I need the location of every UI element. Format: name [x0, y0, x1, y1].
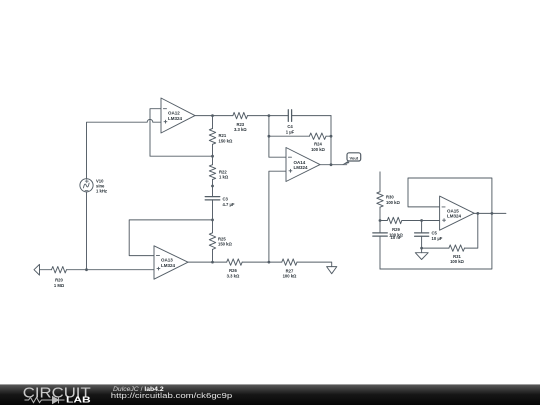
resistor R22 — [212, 156, 214, 165]
svg-text:100 kΩ: 100 kΩ — [450, 259, 464, 264]
logo LAB — [66, 396, 91, 405]
wire R23 to node — [248, 115, 269, 117]
resistor R24 — [269, 135, 310, 137]
svg-text:R29: R29 — [392, 227, 400, 232]
svg-text:C3: C3 — [223, 197, 229, 202]
svg-text:10 nF: 10 nF — [391, 235, 402, 240]
label R31 100 kΩ — [450, 254, 464, 264]
svg-text:1 MΩ: 1 MΩ — [54, 283, 65, 288]
wire R27 to ground — [297, 262, 332, 267]
op-amp OA15 — [440, 196, 475, 230]
junction R25/OA13 out — [211, 261, 214, 264]
svg-text:1 µF: 1 µF — [286, 130, 295, 135]
junction R29/C5 — [420, 219, 423, 222]
label R22 1 kΩ — [219, 169, 229, 179]
svg-text:100 kΩ: 100 kΩ — [386, 200, 400, 205]
svg-text:R31: R31 — [453, 254, 461, 259]
svg-text:R26: R26 — [229, 268, 237, 273]
junction R24 right — [330, 135, 333, 138]
wire V10 bottom to bus — [86, 192, 88, 270]
label R29 100 kΩ (overlapped with 10 nF) — [389, 227, 403, 237]
junction bus/V10 — [85, 268, 88, 271]
label R30 100 kΩ — [386, 195, 400, 205]
svg-text:http://circuitlab.com/ck6gc9p: http://circuitlab.com/ck6gc9p — [111, 391, 232, 400]
svg-text:LM324: LM324 — [168, 116, 183, 121]
label OA14 LM324 — [294, 160, 309, 170]
wire OA14 + riser — [269, 171, 286, 262]
svg-text:C5: C5 — [432, 231, 438, 236]
node Vout flag — [342, 153, 361, 165]
capacitor C5 — [415, 221, 429, 249]
svg-text:100 kΩ: 100 kΩ — [283, 274, 297, 279]
capacitor C4 — [269, 110, 331, 122]
wire R26 to R27 — [242, 261, 282, 263]
junction R22/C3 — [211, 185, 214, 188]
resistor R21 — [212, 116, 214, 129]
ground (left, rotated) — [34, 264, 40, 275]
svg-text:3.3 kΩ: 3.3 kΩ — [227, 273, 240, 278]
op-amp OA14 — [286, 148, 320, 182]
label R26 3.3 kΩ — [227, 268, 240, 278]
label R27 100 kΩ — [283, 268, 297, 278]
wire ground to R20 — [40, 269, 52, 271]
wire node down to OA14 - — [269, 116, 286, 158]
label R23 3.3 kΩ — [234, 122, 247, 132]
svg-text:C4: C4 — [287, 124, 293, 129]
junction output/loop — [491, 212, 494, 215]
wire input stub — [379, 172, 381, 192]
resistor R26 — [227, 259, 243, 265]
svg-text:1 kHz: 1 kHz — [96, 189, 107, 194]
svg-text:R23: R23 — [236, 122, 244, 127]
svg-text:Vout: Vout — [350, 155, 359, 160]
resistor R23 — [233, 112, 248, 118]
svg-text:LM324: LM324 — [447, 214, 462, 219]
label C4 1 µF — [286, 124, 295, 134]
svg-text:R27: R27 — [286, 268, 294, 273]
junction R30/R29/cap — [379, 219, 382, 222]
label R25 150 kΩ — [218, 236, 232, 246]
svg-text:R24: R24 — [314, 142, 322, 147]
resistor R31 — [422, 247, 449, 249]
label Vout — [350, 155, 359, 160]
label 10 nF — [391, 235, 402, 240]
resistor R25 — [212, 220, 214, 233]
junction output/R21 — [211, 114, 214, 117]
wire OA12 output row — [195, 115, 233, 117]
footer url — [111, 391, 232, 400]
resistor R29 — [380, 220, 387, 222]
wire bottom loop / feedback loop — [380, 178, 492, 269]
logo CIRCUIT — [23, 384, 91, 401]
wire OA14 output — [320, 164, 347, 166]
capacitor C6 10 nF — [373, 221, 388, 270]
svg-text:R21: R21 — [219, 133, 227, 138]
svg-text:3.3 kΩ: 3.3 kΩ — [234, 127, 247, 132]
resistor R30 — [377, 192, 383, 208]
wire V10 top to OA12 + (with hop) — [87, 119, 162, 178]
capacitor C3 — [205, 186, 220, 220]
svg-text:100 kΩ: 100 kΩ — [311, 147, 325, 152]
svg-text:LM324: LM324 — [294, 165, 309, 170]
footer title — [113, 386, 164, 393]
junction C3/R25/wire — [211, 219, 214, 222]
label R21 150 kΩ — [219, 133, 233, 143]
ground (right circuit) — [421, 248, 423, 253]
svg-text:150 kΩ: 150 kΩ — [219, 139, 233, 144]
source V10 — [80, 179, 93, 192]
junction output/R31 riser — [476, 212, 479, 215]
wire R20 to bus to OA13 + — [67, 269, 155, 271]
junction R21/R22/feedback — [211, 155, 214, 158]
label R24 100 kΩ — [311, 142, 325, 152]
label OA13 LM324 — [161, 258, 176, 268]
svg-text:R20: R20 — [55, 278, 63, 283]
wire OA12 - feedback left/down/right — [150, 109, 213, 157]
logo resistor+diode — [25, 397, 65, 404]
svg-text:150 kΩ: 150 kΩ — [218, 242, 232, 247]
junction R24 left — [268, 135, 271, 138]
svg-text:R22: R22 — [219, 169, 227, 174]
svg-text:R30: R30 — [386, 195, 394, 200]
wire to OA13 - — [129, 220, 212, 256]
label OA15 LM324 — [447, 208, 462, 218]
label C5 10 µF — [432, 231, 443, 241]
label V10 sine 1kHz — [96, 178, 107, 193]
junction R23/C4 node — [268, 114, 271, 117]
junction R26/R27/OA14+ — [268, 261, 271, 264]
wire OA15 output — [474, 212, 506, 214]
svg-text:1 kΩ: 1 kΩ — [219, 175, 229, 180]
resistor R20 — [52, 267, 67, 273]
svg-text:LM324: LM324 — [161, 263, 176, 268]
svg-text:R25: R25 — [218, 236, 226, 241]
svg-text:4.7 µF: 4.7 µF — [223, 202, 235, 207]
junction output/Vout — [330, 163, 333, 166]
label C3 4.7 µF — [223, 197, 235, 207]
svg-text:10 µF: 10 µF — [432, 236, 443, 241]
op-amp OA12 — [161, 98, 195, 133]
op-amp OA13 — [154, 246, 188, 279]
wire C4 right down to output — [330, 116, 332, 165]
resistor R27 — [282, 259, 297, 265]
junction C5/ground/R31 — [420, 247, 423, 250]
label R20 1 MΩ — [54, 278, 65, 288]
svg-text:LAB: LAB — [66, 396, 91, 405]
ground (right of R27) — [327, 267, 337, 274]
label OA12 LM324 — [168, 111, 183, 121]
wire OA13 output — [188, 261, 227, 263]
